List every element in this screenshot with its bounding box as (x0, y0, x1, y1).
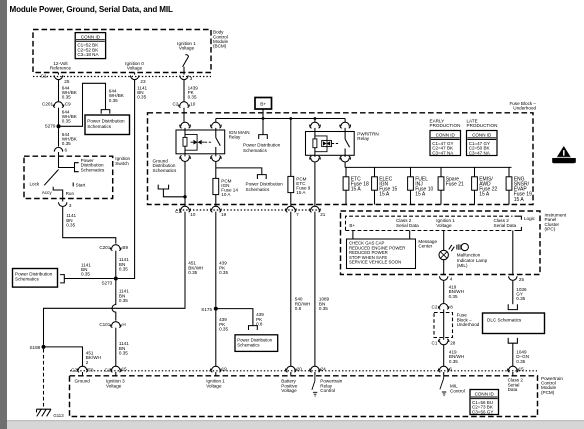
svg-text:C2: C2 (432, 305, 438, 310)
value label 540 RD/WH 0.8 (295, 297, 311, 311)
svg-text:4: 4 (450, 276, 453, 281)
svg-text:Schematics: Schematics (81, 167, 105, 172)
svg-text:C3=56 GY: C3=56 GY (472, 409, 493, 414)
staple reference into Power Distribution box (101, 110, 110, 114)
fuse F9 PCM ETC (288, 176, 294, 206)
relay IGN MAIN socket pin bottom-right (211, 154, 222, 162)
label Class 2 Serial Data (PCM) (508, 378, 524, 392)
connector C1 line on BCM (dotted) (33, 73, 211, 78)
fuse F14 PCM IGN (213, 178, 219, 206)
box DLC Schematics (483, 313, 545, 334)
switch arm ignition key (44, 170, 58, 186)
wire branch S273 to Power Distribution Schematics box (64, 278, 114, 280)
value label 1141 BN 0.35 (119, 341, 129, 355)
svg-text:C9: C9 (65, 101, 71, 106)
wire relay coil low to C1-10 (184, 162, 186, 206)
value label 1141 BN 0.35 (branch) (81, 262, 91, 276)
svg-text:7: 7 (296, 212, 299, 217)
staple reference to Power Distribution Schematics (ignition switch) (75, 163, 79, 172)
svg-text:Schematics: Schematics (246, 187, 270, 192)
junction dot on relay coil ground wire (183, 195, 186, 198)
connector C201 pin C9 (53, 102, 64, 108)
label Class 2 Serial Data (IPC right) (494, 218, 517, 228)
wire 644 WH/BK from C201 to S279 (58, 108, 60, 127)
value label 1141 BN 0.35 (119, 289, 129, 303)
pin C1-15 PCM (111, 366, 122, 376)
value label 451 BK/WH 0.35 (188, 261, 203, 275)
pin C1-10 fuse block (180, 206, 191, 212)
staple reference from Power Distribution box (left mid) (60, 275, 64, 283)
contact Accy-Run to pin 3 (53, 187, 63, 202)
wire 644 WH/BK from S279 to ignition switch (58, 128, 60, 146)
value label 439 PK 0.8 (256, 312, 264, 326)
svg-text:S273: S273 (101, 281, 112, 286)
svg-text:C2: C2 (173, 101, 179, 106)
svg-text:Indicator Lamp: Indicator Lamp (457, 258, 488, 263)
value label 419 BN/WH 0.35 (449, 285, 464, 299)
label ELEC IGN Fuse 15 15 A (379, 176, 397, 197)
wire 439 PK from S175 to PCM pin 19 (215, 311, 217, 367)
label 12-Volt Reference (50, 61, 72, 71)
svg-text:CONN ID: CONN ID (81, 34, 101, 39)
label Fuse Block - Underhood (509, 101, 536, 111)
label Ignition 1 Voltage (IPC) (436, 218, 455, 228)
svg-text:Schematics: Schematics (237, 342, 259, 347)
BCM CONN ID table (75, 33, 105, 59)
wire 1049 D-GN from DLC to PCM pin 15 (512, 343, 514, 366)
svg-text:Run: Run (66, 191, 75, 196)
relay IGN MAIN socket pin bottom-left (180, 154, 191, 163)
wire 1141 BN from S273 to C101 with hop over 451 wire (112, 281, 116, 321)
module PCM Powertrain Control Module box (70, 376, 538, 417)
svg-text:C101: C101 (99, 322, 110, 327)
wire 644 WH/BK from C1-25 to C201 (58, 80, 60, 102)
svg-text:25: 25 (64, 79, 70, 84)
wire B+ bus tap to fuse 9 (290, 119, 292, 177)
relay K2 PWR/TRN Relay (306, 132, 355, 156)
label Message Center (418, 239, 437, 249)
staple reference from DLC box (bottom) (508, 338, 517, 343)
svg-text:Voltage: Voltage (206, 383, 222, 388)
svg-text:Schematics: Schematics (87, 124, 111, 129)
pin 3 ignition switch (59, 202, 67, 207)
svg-text:B+: B+ (260, 102, 266, 108)
svg-text:(BCM): (BCM) (213, 44, 227, 49)
connector C1 line fuse block bottom (dotted) (175, 209, 322, 214)
svg-text:C1: C1 (41, 73, 47, 78)
connector C2 pin 8 (fuse block) (438, 304, 449, 310)
fuse F19 ENG SNSR/EVAP (506, 167, 512, 204)
wire 451 BK/WH 2 from S188 to PCM ground C2-70 (44, 347, 83, 367)
svg-text:DLC Schematics: DLC Schematics (487, 318, 522, 323)
relay K2 PWR/TRN socket pin top-right (340, 119, 351, 132)
wire through fuse block to C1-28 (443, 309, 445, 340)
relay diode triangles IGN MAIN (193, 140, 201, 145)
relay PWR/TRN socket pin bottom-left (310, 155, 321, 162)
svg-text:G113: G113 (53, 413, 64, 418)
svg-text:Schematics: Schematics (15, 277, 39, 282)
svg-text:19: 19 (222, 367, 228, 372)
switch ignition-1 inside BCM (183, 55, 189, 73)
svg-text:Switch: Switch (115, 161, 129, 166)
svg-text:25: 25 (519, 277, 525, 282)
warning triangle note (552, 146, 576, 163)
splice S279 (45, 124, 61, 129)
value label 1036 GY 0.35 (516, 287, 527, 301)
splice S273 (101, 277, 117, 286)
indicator lamp MIL (439, 250, 448, 259)
svg-text:H: H (122, 322, 125, 327)
pin 4 IPC (440, 276, 448, 281)
svg-text:6: 6 (449, 367, 452, 372)
wire PWR/TRN coil low to C1-21 (314, 162, 316, 206)
wire 451 BK/WH from fuse block C1-10 down-left to S188 (44, 212, 186, 345)
svg-text:B9: B9 (122, 245, 128, 250)
svg-text:Ground: Ground (75, 379, 91, 384)
table EARLY PRODUCTION CONN ID (430, 131, 461, 156)
value label 1439 PK 0.35 (188, 85, 199, 99)
label Spare Fuse 21 (446, 176, 464, 187)
svg-text:C3=47 NA: C3=47 NA (432, 150, 454, 155)
staple reference Ground Distribution Schematics (158, 185, 168, 189)
svg-text:Center: Center (418, 244, 432, 249)
svg-text:C2: C2 (71, 368, 77, 373)
label Logic with corner brackets (515, 216, 522, 230)
junction dot B+ on bus (262, 117, 265, 120)
contact Start (72, 183, 74, 187)
svg-text:CONN ID: CONN ID (472, 132, 492, 137)
svg-text:Voltage: Voltage (436, 223, 452, 228)
connector C2 pin 10 (fuse block) (179, 102, 190, 108)
module IPC Instrument Panel Cluster box (341, 211, 541, 275)
staple reference into Power Distribution box (439 branch) (249, 326, 258, 330)
wire class 2 serial data to IPC pin 25 (512, 231, 514, 276)
driver powertrain relay control with ground (312, 376, 317, 396)
power feed B+ box (255, 98, 272, 110)
wire 419 BN/WH from C1-28 to PCM pin 6 (443, 345, 445, 367)
svg-text:24: 24 (321, 367, 327, 372)
label Ground Distribution Schematics (153, 158, 177, 172)
svg-text:CONN ID: CONN ID (475, 392, 495, 397)
svg-text:C1: C1 (432, 340, 438, 345)
label PWR/TRN Relay (357, 131, 378, 141)
connector C101 pin H (111, 322, 122, 328)
label Battery Positive Voltage (281, 379, 298, 393)
wire branch to Power Distribution staple (ign feed) (216, 168, 262, 175)
svg-text:Control: Control (450, 388, 465, 393)
label IGN MAIN Relay (229, 130, 250, 140)
splice S188 (29, 345, 45, 350)
label EMIS/AWD Fuse 22 15 A (479, 176, 497, 197)
wire 1141 BN from ignition switch to C201 (63, 207, 116, 243)
svg-text:3: 3 (69, 203, 72, 208)
svg-text:Lock: Lock (30, 181, 40, 186)
svg-text:CONN ID: CONN ID (436, 132, 456, 137)
svg-text:3: 3 (190, 76, 193, 81)
label Ignition Switch (115, 156, 130, 166)
label FUEL INJ Fuse 10 15 A (415, 176, 433, 197)
pin 6 ignition switch (54, 147, 62, 152)
svg-text:C201: C201 (99, 245, 110, 250)
label Instrument Panel Cluster (IPC) (545, 212, 567, 231)
label EARLY PRODUCTION (430, 119, 461, 129)
label Ignition 1 Voltage (BCM) (177, 41, 196, 51)
value label 419 BN/WH 0.35 (lower) (449, 350, 464, 364)
label PCM IGN Fuse 14 10 A (221, 178, 238, 197)
relay K2 PWR/TRN socket pin top-left (310, 119, 321, 132)
value label 1141 BN 0.35 (pin 23 wire) (137, 85, 147, 99)
value label 644 WH/BK 0.35 (62, 132, 78, 146)
label Ignition 3 Voltage (106, 379, 125, 389)
pin 19 PCM (211, 366, 222, 376)
label Fuse Block - Underhood (small) (457, 313, 480, 327)
svg-text:70: 70 (88, 368, 94, 373)
value label 1141 BN 0.35 (119, 257, 129, 271)
wire 1141 BN from C201-B9 to S273 (115, 251, 117, 277)
wire Class 2 serial data to message center (409, 231, 411, 240)
pin 25 IPC (509, 276, 517, 281)
svg-text:Serial Data: Serial Data (494, 223, 517, 228)
svg-text:15: 15 (519, 367, 525, 372)
fuse F15 ELEC IGN (372, 167, 378, 204)
switch MIL control with ground (440, 376, 446, 396)
relay K1 IGN MAIN Relay (176, 130, 225, 154)
pin 20 PCM (286, 366, 297, 376)
value label 644 WH/BK 0.35 (62, 85, 78, 99)
relay K-IGN-MAIN socket pin top-left (180, 122, 191, 130)
label Class 2 Serial Data (IPC left) (396, 218, 419, 228)
svg-text:Voltage: Voltage (281, 388, 297, 393)
label ENG SNSR/EVAP Fuse 19 15 A (514, 176, 532, 202)
value label 644 WH/BK 0.35 (109, 89, 125, 103)
pin C1-3 (BCM) (180, 73, 188, 80)
connector C201 pin B9 (111, 245, 122, 251)
wire branch S175 to Power Distribution Schematics (216, 309, 253, 326)
svg-text:Schematics: Schematics (243, 148, 267, 153)
staple reference into DLC box (top) (508, 304, 517, 309)
svg-text:Underhood: Underhood (457, 322, 480, 327)
message center box (347, 239, 416, 269)
svg-text:Control: Control (320, 388, 335, 393)
box Power Distribution Schematics (lower mid) (235, 335, 278, 352)
svg-text:Start: Start (76, 182, 86, 187)
relay K-IGN-MAIN socket pin top-right (211, 119, 222, 131)
svg-text:6: 6 (65, 148, 68, 153)
wire 1036 GY from IPC-25 to DLC reference (512, 281, 514, 304)
svg-text:Relay: Relay (357, 136, 369, 141)
wire 1141 BN from BCM C1-23 down to S273 (118, 80, 135, 279)
wire MIL lamp to IPC pin 4 (443, 260, 445, 276)
svg-text:C1: C1 (105, 368, 111, 373)
svg-text:Voltage: Voltage (127, 65, 143, 70)
svg-text:Schematics: Schematics (153, 168, 177, 173)
wire B+ to message center (352, 231, 354, 240)
wire 1089 BN from C1-21 to PCM pin 24 (314, 212, 316, 367)
staple reference Power Distribution Schematics (ign feed) (257, 175, 266, 179)
label Power Distribution Schematics (ignition switch) (81, 158, 105, 172)
svg-text:B+: B+ (349, 223, 355, 228)
svg-text:Module Power, Ground, Serial D: Module Power, Ground, Serial Data, and M… (10, 5, 173, 14)
svg-text:Voltage: Voltage (179, 45, 195, 50)
pin C1-7 fuse block (286, 206, 297, 212)
box Power Distribution Schematics (left mid) (13, 269, 58, 288)
staple reference B+ to Power Distribution Schematics (259, 135, 268, 139)
ground wire S188 to G113 (dashed) (43, 349, 45, 409)
bus wire fuse row (345, 162, 511, 167)
svg-text:Voltage: Voltage (106, 383, 122, 388)
wire C2-10 into fuse block to relay socket (183, 108, 185, 122)
relay diode triangles PWR/TRN (323, 141, 330, 146)
svg-text:PRODUCTION: PRODUCTION (430, 123, 461, 128)
lamp rays (449, 245, 455, 251)
wire 1439 PK from BCM C1-3 to C2-10 (183, 80, 185, 102)
wire 540 RD/WH from C1-7 to PCM pin 20 (290, 212, 292, 367)
svg-text:28: 28 (450, 340, 456, 345)
table LATE PRODUCTION CONN ID (467, 131, 498, 156)
label Powertrain Relay Control (320, 379, 342, 393)
svg-text:(MIL): (MIL) (457, 263, 468, 268)
value label 1141 BN 0.35 (66, 213, 76, 227)
label PCM ETC Fuse 9 15 A (296, 176, 310, 195)
wire 419 BN/WH from IPC-4 to C2-8 (443, 281, 445, 303)
pin C2-70 PCM (77, 366, 88, 376)
wire 1141 BN from C101 to PCM C1-15 (115, 328, 117, 367)
svg-text:S175: S175 (201, 307, 212, 312)
label Body Control Module (BCM) (213, 30, 229, 49)
value label 644 WH/BK 0.35 (62, 109, 78, 123)
wire B+ into fuse block bus (262, 109, 264, 135)
svg-text:Underhood: Underhood (513, 106, 536, 111)
module ignition switch box (24, 156, 113, 198)
value label 439 PK 0.35 (219, 261, 228, 275)
fuse F22 EMIS/AWD (472, 167, 478, 204)
value label 451 BK/WH 2 (86, 351, 101, 365)
svg-text:Relay: Relay (229, 135, 241, 140)
pin C1-19 fuse block (211, 206, 222, 212)
svg-text:S279: S279 (45, 124, 56, 129)
connector C1 pin 28 (438, 339, 449, 345)
svg-text:Serial Data: Serial Data (396, 223, 419, 228)
label ETC Fuse 18 15 A (351, 176, 369, 192)
pin C1-21 fuse block (310, 206, 321, 212)
pin C1-23 (BCM) (130, 73, 138, 80)
fuse block underhood pass-through dashed box (434, 313, 453, 338)
wire ground reference to relay coil low side (163, 189, 185, 197)
svg-text:Data: Data (508, 387, 518, 392)
svg-text:20: 20 (297, 367, 303, 372)
label Ignition 1 Voltage (PCM) (206, 379, 225, 389)
svg-text:10: 10 (190, 212, 196, 217)
module fuse block underhood box (148, 113, 534, 205)
pin 24 PCM (310, 366, 321, 376)
box Power Distribution Schematics (upper) (85, 115, 130, 135)
svg-text:Malfunction: Malfunction (457, 253, 481, 258)
svg-text:Logic: Logic (524, 216, 536, 221)
value label 1089 BN 0.35 (319, 297, 330, 311)
pin 15 PCM (class 2) (508, 366, 519, 376)
bus wire B+ inside fuse block (216, 118, 345, 120)
junction dot PWR/TRN coil tap (314, 117, 317, 120)
splice S175 (201, 307, 218, 312)
pin 6 PCM (MIL control) (439, 366, 450, 376)
fuse F21 Spare (438, 167, 444, 204)
IPC internal logic dashed box (346, 216, 513, 230)
ground G113 symbol (37, 409, 52, 416)
svg-text:C3=47 NA: C3=47 NA (469, 150, 491, 155)
wire branch S279 to Power Distribution Schematics reference (59, 83, 106, 126)
module U-BCM Body Control Module box (33, 30, 211, 73)
relay PWR/TRN socket pin bottom-right (340, 155, 351, 162)
label Power Distribution Schematics (under B+) (243, 143, 281, 153)
svg-text:21: 21 (320, 212, 326, 217)
value label 1049 D-GN 0.35 (516, 350, 529, 364)
fuse F18 ETC (343, 167, 349, 204)
label LATE PRODUCTION (467, 119, 498, 129)
pin C1-25 (BCM) (54, 73, 62, 80)
label MIL Control (450, 384, 465, 394)
wire relay switch output to fuse 14 (215, 162, 217, 179)
wire 439 PK from C1-19 to S175 (215, 212, 217, 307)
svg-text:(PCM): (PCM) (541, 390, 555, 395)
wire ignition 1 voltage to MIL lamp (443, 231, 445, 251)
svg-text:C201: C201 (42, 101, 53, 106)
label Malfunction Indicator Lamp (MIL) (457, 253, 488, 269)
svg-text:Accy: Accy (42, 190, 53, 195)
svg-text:8: 8 (450, 305, 453, 310)
label Powertrain Control Module (PCM) (541, 376, 563, 395)
connector line PCM top (dotted) (70, 370, 537, 372)
label Ignition 0 Voltage (125, 61, 144, 71)
label Power Distribution Schematics (ign feed) (246, 182, 284, 192)
PCM CONN ID table (470, 390, 499, 415)
svg-text:19: 19 (221, 212, 227, 217)
svg-text:C3=18 NA: C3=18 NA (77, 52, 99, 57)
svg-text:23: 23 (140, 79, 146, 84)
svg-text:PRODUCTION: PRODUCTION (467, 123, 498, 128)
bulb icon (457, 244, 469, 251)
value label 439 PK 0.35 (lower) (219, 317, 228, 331)
svg-text:C0816: C0816 (558, 158, 571, 163)
svg-text:Reference: Reference (50, 65, 72, 70)
fuse F10 FUEL INJ (408, 167, 414, 204)
svg-text:(IPC): (IPC) (545, 227, 556, 232)
svg-text:15: 15 (122, 367, 128, 372)
svg-text:10: 10 (190, 101, 196, 106)
svg-text:S188: S188 (29, 345, 40, 350)
junction dot fuse 9 tap (289, 117, 292, 120)
wire pin6 to switch common (59, 152, 75, 168)
